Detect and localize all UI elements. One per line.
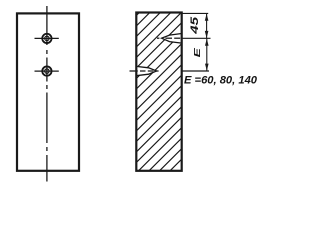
svg-text:45: 45 (189, 15, 201, 35)
hole D void (lower blind hole, drilled from left face) (136, 66, 156, 75)
hole B outer circle (42, 66, 51, 75)
extension line from hole C axis (182, 37, 211, 39)
hole D outline (136, 66, 156, 75)
hole B inner circle (45, 69, 49, 73)
hole B crosshair (35, 70, 59, 72)
section view outline (136, 13, 181, 171)
hole C void (upper blind hole, drilled from right face) (162, 34, 182, 44)
dimension line 45 (206, 13, 208, 38)
arrow E bottom (205, 64, 209, 71)
hole A outer circle (42, 34, 51, 43)
hole A inner circle (45, 36, 49, 40)
svg-text:E =60, 80, 140: E =60, 80, 140 (184, 74, 258, 86)
hole C centerline (157, 37, 180, 39)
centerline (vertical chain line, left view) (46, 6, 48, 182)
arrow 45 top (205, 14, 209, 21)
dimension line E (206, 38, 208, 71)
arrow E top (205, 39, 209, 46)
section hatching (130, 0, 190, 221)
hole A crosshair (35, 37, 59, 39)
extension line from top edge (182, 12, 209, 14)
extension line from hole D axis (182, 70, 209, 72)
hole D centerline (130, 70, 159, 72)
hole C outline (162, 34, 182, 44)
left view outline (17, 13, 79, 170)
svg-text:E: E (192, 48, 202, 58)
arrow 45 bottom (205, 31, 209, 38)
